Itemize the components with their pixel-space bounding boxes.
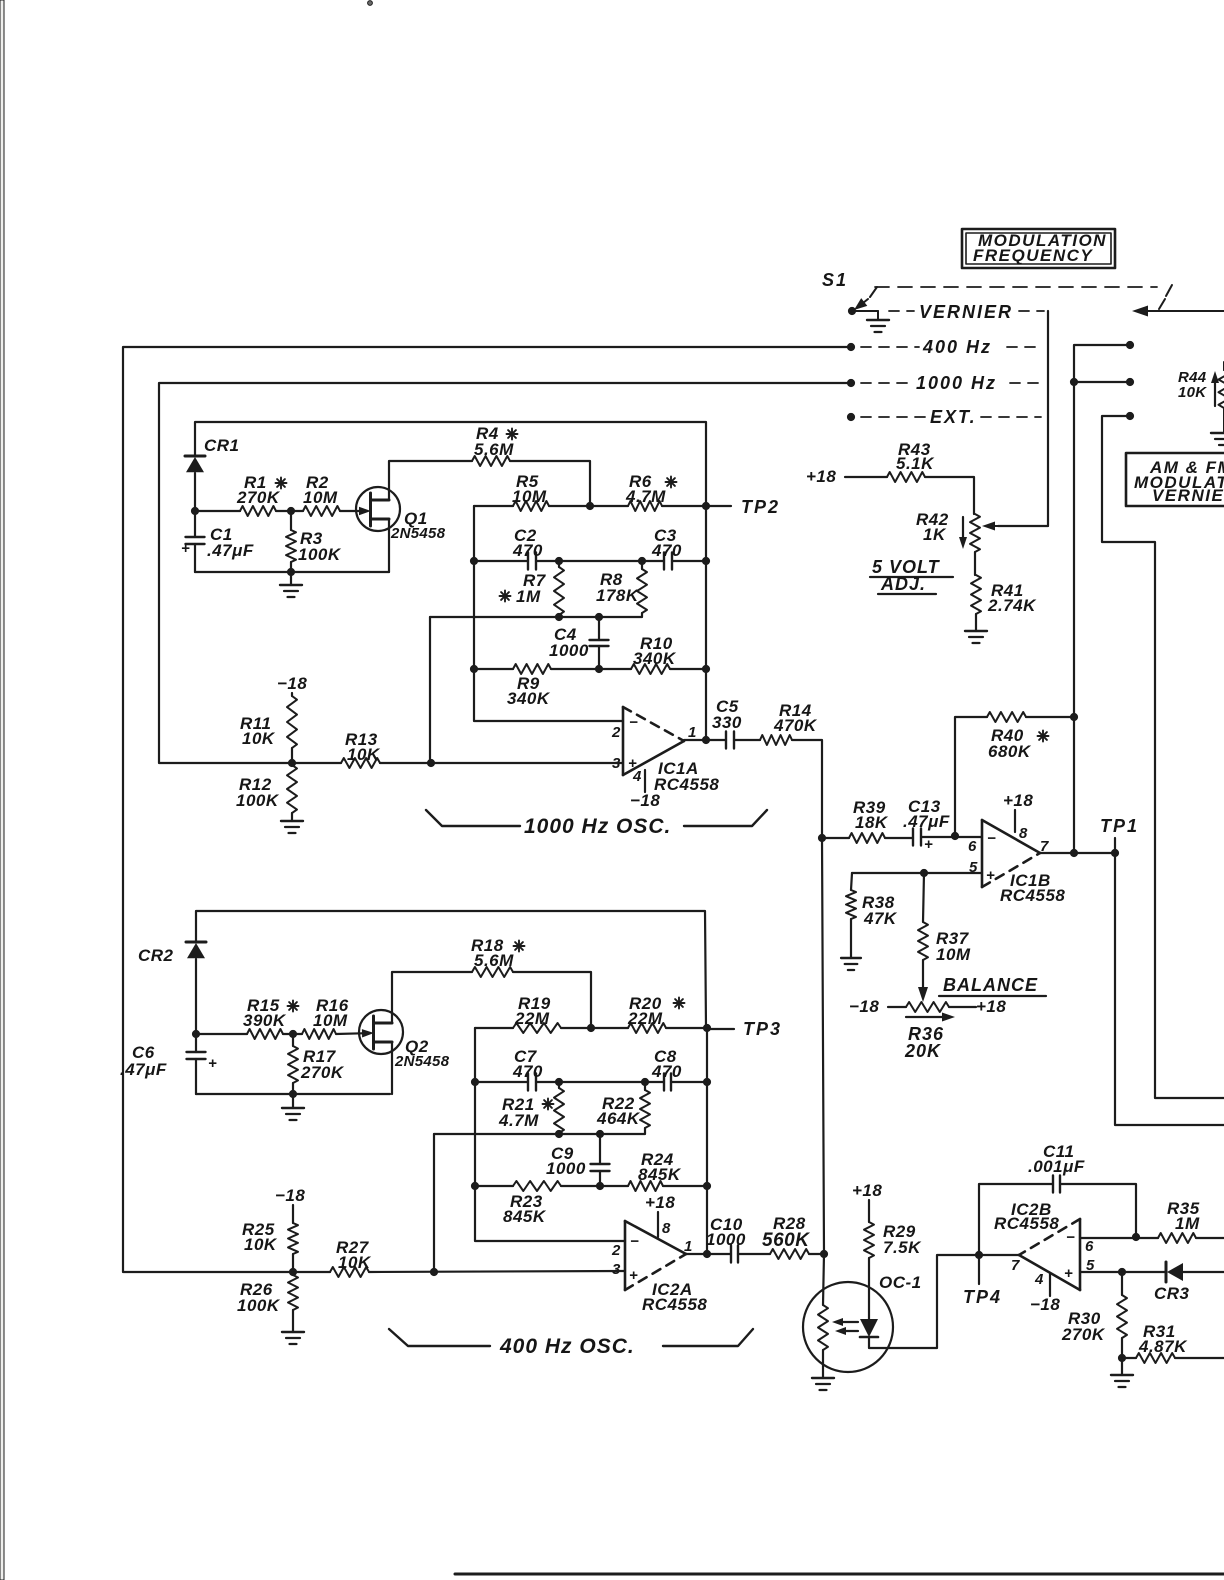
- svg-text:RC4558: RC4558: [994, 1214, 1059, 1233]
- resistor R2: [303, 473, 340, 516]
- ground below R26: [282, 1332, 304, 1344]
- wire twin-T left rail osc2: [475, 1028, 625, 1241]
- svg-text:.47μF: .47μF: [207, 541, 254, 560]
- svg-text:10K: 10K: [1178, 384, 1207, 401]
- node EXT contact: [847, 413, 854, 420]
- svg-text:10M: 10M: [313, 1011, 348, 1030]
- svg-text:7: 7: [1011, 1257, 1020, 1274]
- svg-text:1: 1: [688, 724, 696, 741]
- node junction 400/1000: [1070, 378, 1077, 385]
- svg-text:RC4558: RC4558: [642, 1295, 707, 1314]
- ground below R38: [841, 958, 861, 970]
- svg-text:−: −: [987, 830, 996, 847]
- svg-text:2N5458: 2N5458: [390, 525, 446, 542]
- ground below OC-1: [812, 1378, 834, 1390]
- wire junction down to R40 node: [1073, 382, 1075, 717]
- node output rail osc2: [703, 1250, 710, 1257]
- resistor R19: [475, 994, 561, 1033]
- svg-text:680K: 680K: [988, 742, 1032, 761]
- resistor R39: [849, 798, 889, 843]
- wire twin-T left rail osc1: [474, 506, 623, 721]
- switch S1 right wiper slash: [1159, 285, 1172, 309]
- node C7/R21: [555, 1078, 562, 1085]
- resistor R25: [242, 1205, 298, 1272]
- node R10 right rail: [702, 665, 709, 672]
- svg-text:8: 8: [1019, 825, 1028, 842]
- svg-text:5.1K: 5.1K: [896, 454, 935, 473]
- svg-text:FREQUENCY: FREQUENCY: [973, 246, 1093, 265]
- svg-text:400 Hᴢ OSC.: 400 Hᴢ OSC.: [499, 1335, 635, 1358]
- svg-text:5.6M: 5.6M: [474, 951, 514, 970]
- svg-text:−: −: [630, 1233, 639, 1250]
- node C2/R7: [555, 557, 562, 564]
- wire R41 to ground: [975, 614, 977, 631]
- wire Q1 drain to R4: [389, 461, 472, 500]
- resistor R28: [762, 1214, 810, 1259]
- svg-text:2: 2: [611, 724, 621, 741]
- wire C10 to R28: [738, 1253, 770, 1255]
- node 1000Hz right contact: [1126, 378, 1133, 385]
- svg-text:TP3: TP3: [743, 1019, 782, 1039]
- svg-text:−18: −18: [1030, 1295, 1060, 1314]
- svg-text:470: 470: [651, 1062, 682, 1081]
- wire C13 to pin6: [921, 836, 982, 838]
- svg-text:2: 2: [611, 1242, 621, 1259]
- resistor R10: [599, 634, 706, 674]
- svg-text:−18: −18: [275, 1186, 305, 1205]
- svg-text:VERNIER: VERNIER: [919, 302, 1013, 322]
- resistor R27: [330, 1238, 372, 1277]
- diode CR3: [1154, 1262, 1224, 1303]
- resistor R30: [1061, 1272, 1127, 1358]
- svg-text:CR3: CR3: [1154, 1284, 1190, 1303]
- power +18 (R29): [852, 1181, 882, 1200]
- svg-text:560K: 560K: [762, 1230, 810, 1251]
- power -18 (R36): [849, 997, 879, 1016]
- node TP4: [975, 1251, 982, 1258]
- wire node to R2: [291, 510, 303, 512]
- wire R14 to rail: [792, 740, 822, 838]
- net label 400 Hz: [861, 337, 1041, 357]
- transistor Q1 2N5458: [356, 487, 446, 542]
- node C7 left: [471, 1078, 478, 1085]
- resistor R23: [475, 1181, 600, 1226]
- svg-text:10M: 10M: [303, 488, 338, 507]
- wire R2 to Q1 gate: [340, 507, 371, 515]
- svg-text:340K: 340K: [633, 649, 677, 668]
- wire R22 node to C8: [645, 1081, 664, 1083]
- wire CR1 to node: [194, 473, 196, 511]
- testpoint TP1: [1100, 816, 1139, 853]
- svg-text:4.87K: 4.87K: [1138, 1337, 1188, 1356]
- resistor R9: [474, 664, 599, 708]
- wire 1000Hz feedback rail: [159, 383, 851, 763]
- svg-text:10K: 10K: [242, 729, 276, 748]
- svg-text:390K: 390K: [243, 1011, 287, 1030]
- wire R37 to balance arrow: [918, 960, 928, 1002]
- wire R42 to R41: [974, 552, 976, 575]
- capacitor C5: [712, 697, 742, 749]
- capacitor C13: [903, 797, 950, 853]
- node R37 top: [920, 869, 927, 876]
- wire R15 to node: [283, 1033, 293, 1035]
- switch S1 label: [822, 270, 848, 290]
- wire Q2 drain to R18: [392, 972, 472, 1023]
- svg-text:+: +: [181, 540, 190, 557]
- wire IC1A output: [684, 739, 726, 741]
- wiper arrow R36: [906, 1013, 955, 1022]
- wire Q1 source: [388, 519, 390, 572]
- svg-text:+18: +18: [645, 1193, 675, 1212]
- resistor R8: [596, 561, 647, 617]
- ground below R44: [1211, 433, 1224, 445]
- op-amp IC2B: [994, 1200, 1095, 1290]
- resistor R6: [590, 472, 677, 511]
- node R23 left rail: [471, 1182, 478, 1189]
- resistor R40: [987, 712, 1049, 761]
- node rail TP2: [702, 502, 709, 509]
- svg-text:S1: S1: [822, 270, 848, 290]
- wire osc1 right rail: [705, 506, 707, 740]
- svg-text:+: +: [629, 1267, 638, 1284]
- svg-text:20K: 20K: [904, 1041, 942, 1061]
- resistor R18: [471, 936, 525, 977]
- capacitor C11 loop: [979, 1142, 1136, 1255]
- node R40 tap: [951, 832, 958, 839]
- wire +18 to R29: [868, 1200, 870, 1222]
- wire R13 to pin3: [380, 762, 623, 764]
- ground below R17: [282, 1094, 304, 1120]
- resistor R37: [918, 873, 971, 964]
- node R9 left rail: [470, 665, 477, 672]
- svg-text:340K: 340K: [507, 689, 551, 708]
- svg-text:22M: 22M: [627, 1009, 663, 1028]
- node R4/R5/R6: [549, 502, 594, 509]
- wire to C2: [474, 560, 528, 562]
- svg-text:400 Hᴢ: 400 Hᴢ: [922, 337, 992, 357]
- svg-text:−: −: [629, 714, 638, 731]
- node R18/R19/R20: [561, 1024, 595, 1031]
- svg-text:−18: −18: [277, 674, 307, 693]
- node EXT right contact: [1126, 412, 1133, 419]
- diode CR2: [138, 942, 206, 965]
- capacitor C3: [651, 526, 682, 570]
- svg-text:18K: 18K: [855, 813, 889, 832]
- wire IC2B pin4 -18: [1030, 1274, 1060, 1314]
- ground below R3: [280, 572, 302, 597]
- ground below R30/R31: [1111, 1358, 1133, 1387]
- node C4 top: [595, 613, 602, 620]
- svg-text:1: 1: [684, 1238, 692, 1255]
- node R17 bottom: [289, 1090, 296, 1097]
- svg-text:+: +: [986, 867, 995, 884]
- net label EXT: [861, 407, 1041, 427]
- wire Q2 source: [391, 1042, 393, 1094]
- svg-text:4: 4: [632, 768, 642, 785]
- svg-text:10M: 10M: [512, 487, 547, 506]
- node C9 top: [596, 1130, 603, 1137]
- wire IC1B output: [1040, 852, 1115, 854]
- node R30 top: [1118, 1268, 1125, 1275]
- wire node to R16: [293, 1033, 302, 1035]
- brace 1000 Hz OSC: [426, 810, 767, 838]
- svg-text:100K: 100K: [236, 791, 280, 810]
- node TP1: [1111, 849, 1118, 856]
- svg-text:845K: 845K: [503, 1207, 547, 1226]
- svg-text:+: +: [924, 836, 933, 853]
- svg-text:OC-1: OC-1: [879, 1273, 922, 1292]
- wire VERNIER to R42 wiper: [998, 311, 1048, 526]
- resistor R11: [240, 693, 297, 763]
- svg-text:470K: 470K: [773, 716, 818, 735]
- svg-text:BALANCE: BALANCE: [943, 975, 1038, 995]
- wire R20 to rail: [666, 1027, 707, 1029]
- node CR2/C6/R15: [192, 1030, 199, 1037]
- wire rail to R39: [822, 837, 849, 839]
- resistor R1: [236, 473, 287, 516]
- svg-text:CR1: CR1: [204, 436, 240, 455]
- svg-text:10K: 10K: [347, 745, 381, 764]
- svg-text:+: +: [1064, 1265, 1073, 1282]
- wire C5 to R14: [734, 739, 760, 741]
- ground at VERNIER contact: [852, 311, 889, 332]
- svg-text:6: 6: [968, 838, 977, 855]
- label 5 VOLT ADJ: [870, 557, 953, 594]
- resistor R24: [600, 1150, 707, 1191]
- node C3 right rail: [702, 557, 709, 564]
- LED OC-1: [860, 1319, 878, 1337]
- net label VERNIER: [889, 302, 1044, 322]
- resistor R4: [472, 424, 518, 466]
- svg-text:178K: 178K: [596, 586, 640, 605]
- scan mark top: [368, 1, 373, 6]
- node pin3/tap osc2: [430, 1268, 437, 1275]
- svg-text:1000: 1000: [706, 1230, 746, 1249]
- testpoint TP4: [963, 1255, 1002, 1307]
- node 400 Hz contact: [847, 343, 854, 350]
- capacitor C6: [120, 1034, 217, 1094]
- box AM & FM MODULATION VERNIER: [1126, 453, 1224, 506]
- resistor R22: [596, 1082, 650, 1134]
- op-amp IC1A: [611, 707, 719, 794]
- capacitor C7: [512, 1047, 543, 1091]
- svg-text:+18: +18: [976, 997, 1006, 1016]
- node 1000 Hz contact: [847, 379, 854, 386]
- switch S1 wiper dashed line: [875, 286, 1157, 288]
- svg-text:7.5K: 7.5K: [883, 1238, 922, 1257]
- node R21 bottom: [555, 1130, 562, 1137]
- resistor R16: [302, 996, 349, 1039]
- resistor R35: [1158, 1199, 1224, 1243]
- ground below R12: [281, 821, 303, 833]
- ground below R41: [965, 631, 987, 643]
- wire R40 node down to output: [1073, 717, 1075, 853]
- node C8/R22: [641, 1078, 648, 1085]
- photon arrows OC-1: [832, 1318, 858, 1335]
- resistor R12: [236, 763, 297, 821]
- power -18 (R25): [275, 1186, 305, 1205]
- svg-text:RC4558: RC4558: [654, 775, 719, 794]
- scan line bottom: [455, 1573, 1224, 1576]
- op-amp IC2A: [611, 1221, 707, 1314]
- wire R6 to rail: [662, 505, 706, 507]
- resistor R13: [341, 730, 381, 768]
- wiper arrow R44: [1211, 371, 1219, 406]
- svg-text:−18: −18: [630, 791, 660, 810]
- svg-text:47K: 47K: [863, 909, 898, 928]
- resistor R31: [1122, 1322, 1224, 1363]
- node rail TP3: [703, 1024, 710, 1031]
- resistor R15: [243, 996, 299, 1039]
- brace 400 Hz OSC: [389, 1329, 753, 1358]
- wire IC2A output: [686, 1253, 731, 1255]
- capacitor C8: [651, 1047, 682, 1091]
- node C4 bottom: [595, 665, 602, 672]
- power +18 (IC2A pin8): [645, 1193, 675, 1237]
- photoresistor OC-1: [818, 1254, 828, 1378]
- wire CR2 to node: [195, 959, 197, 1034]
- node R15/R16/R17: [289, 1030, 296, 1037]
- wire C2 to R7 node: [536, 560, 559, 562]
- wire R4 to R5/R6 node: [510, 461, 590, 506]
- wire R40 left leg: [955, 717, 987, 836]
- svg-text:TP4: TP4: [963, 1287, 1002, 1307]
- wire R43 to R42: [925, 477, 974, 514]
- svg-text:1000: 1000: [546, 1159, 586, 1178]
- svg-text:470: 470: [512, 1062, 543, 1081]
- svg-text:470: 470: [651, 541, 682, 560]
- wire osc1 top: [195, 422, 706, 506]
- svg-text:−18: −18: [849, 997, 879, 1016]
- adjust arrow R42: [959, 517, 967, 549]
- svg-text:8: 8: [662, 1220, 671, 1237]
- wire R7 node to R8 node: [559, 560, 642, 562]
- svg-text:.47μF: .47μF: [903, 812, 950, 831]
- transistor Q2 2N5458: [359, 1010, 450, 1070]
- wire osc2 top: [196, 911, 706, 1028]
- wire R16 to Q2 gate: [336, 1029, 374, 1037]
- resistor R21: [498, 1082, 564, 1134]
- node R24 right rail: [703, 1182, 710, 1189]
- wire IC2B pin5: [1080, 1271, 1122, 1273]
- power +18 (IC1B pin8): [1003, 791, 1033, 832]
- svg-text:470: 470: [512, 541, 543, 560]
- diode CR1: [185, 436, 240, 472]
- svg-text:845K: 845K: [638, 1165, 682, 1184]
- wire C7 to R21 node: [536, 1081, 559, 1083]
- scan edge left strip: [0, 0, 4, 1580]
- op-amp IC1B: [968, 820, 1065, 905]
- node R11/R12/R13: [288, 759, 295, 766]
- svg-text:TP2: TP2: [741, 497, 780, 517]
- wire C8 to rail: [671, 1081, 707, 1083]
- wire R40 right leg: [1026, 716, 1074, 718]
- svg-text:+18: +18: [1003, 791, 1033, 810]
- node R3 bottom: [287, 568, 294, 575]
- potentiometer R42: [916, 510, 980, 552]
- wire osc1 bottom loop: [195, 571, 389, 573]
- capacitor C4: [549, 617, 609, 669]
- capacitor C1: [181, 511, 254, 572]
- node R7 bottom: [555, 613, 562, 620]
- wire C3 to rail: [672, 560, 706, 562]
- label BALANCE: [939, 975, 1046, 996]
- wire EXT contact to output line: [1102, 416, 1224, 1098]
- potentiometer R44: [1178, 362, 1224, 433]
- wire pin5 to CR3: [1122, 1271, 1165, 1273]
- svg-text:10K: 10K: [338, 1253, 372, 1272]
- wire osc2 right rail: [706, 1028, 708, 1254]
- wire 1000Hz contact to junction: [1074, 381, 1130, 383]
- svg-text:270K: 270K: [1061, 1325, 1106, 1344]
- svg-text:ADJ.: ADJ.: [880, 574, 926, 594]
- svg-text:.001μF: .001μF: [1028, 1157, 1085, 1176]
- svg-text:RC4558: RC4558: [1000, 886, 1065, 905]
- wire R8 node to C3: [642, 560, 664, 562]
- svg-text:VERNIE: VERNIE: [1152, 486, 1224, 505]
- svg-text:TP1: TP1: [1100, 816, 1139, 836]
- wiper arrow R42: [982, 522, 1048, 531]
- node CR1/C1/R1: [191, 507, 198, 514]
- node R40 right: [1070, 713, 1077, 720]
- svg-text:+18: +18: [806, 467, 836, 486]
- resistor R38: [846, 873, 898, 958]
- node output/R40: [1070, 849, 1077, 856]
- testpoint TP3: [707, 1019, 782, 1039]
- svg-text:2N5458: 2N5458: [394, 1053, 450, 1070]
- power -18 (R11): [277, 674, 307, 693]
- wire IC1A pin4 -18: [630, 770, 660, 810]
- svg-text:100K: 100K: [237, 1296, 281, 1315]
- power +18 (R36): [976, 997, 1006, 1016]
- wire 400Hz contact to junction: [1074, 345, 1130, 382]
- node R30/R31: [1118, 1354, 1125, 1361]
- wire to C7: [475, 1081, 528, 1083]
- net label 1000 Hz: [861, 373, 1041, 393]
- node R1/R2/R3: [287, 507, 294, 514]
- resistor R7: [500, 561, 565, 617]
- svg-text:5.6M: 5.6M: [474, 440, 514, 459]
- wire R18 to R19/R20 node: [513, 972, 591, 1028]
- resistor R5: [474, 472, 549, 511]
- svg-text:4.7M: 4.7M: [498, 1111, 539, 1130]
- wire IC2B pin6: [1080, 1237, 1158, 1239]
- power +18 (R43): [806, 467, 836, 486]
- svg-text:1000 Hᴢ: 1000 Hᴢ: [916, 373, 997, 393]
- switch S1 left wiper contact: [854, 287, 877, 310]
- capacitor C2: [512, 526, 543, 570]
- svg-text:1M: 1M: [516, 587, 541, 606]
- node C11/R35: [1132, 1233, 1139, 1240]
- wire rail R39-R28: [822, 838, 824, 1254]
- svg-text:1M: 1M: [1175, 1214, 1200, 1233]
- resistor R14: [760, 701, 818, 745]
- svg-text:1000 Hᴢ OSC.: 1000 Hᴢ OSC.: [524, 815, 671, 838]
- testpoint TP2: [706, 497, 780, 517]
- wire R1 to node: [276, 510, 291, 512]
- resistor R41: [971, 575, 1037, 615]
- node C2 left: [470, 557, 477, 564]
- resistor R17: [288, 1034, 345, 1094]
- node R39 rail: [818, 834, 825, 841]
- node R25/R26/R27: [289, 1268, 296, 1275]
- svg-text:330: 330: [712, 713, 742, 732]
- svg-text:−: −: [1066, 1229, 1075, 1246]
- node R28/rail: [820, 1250, 827, 1257]
- resistor R43: [887, 440, 935, 482]
- resistor R20: [591, 994, 685, 1033]
- wire R39 to C13: [885, 837, 913, 839]
